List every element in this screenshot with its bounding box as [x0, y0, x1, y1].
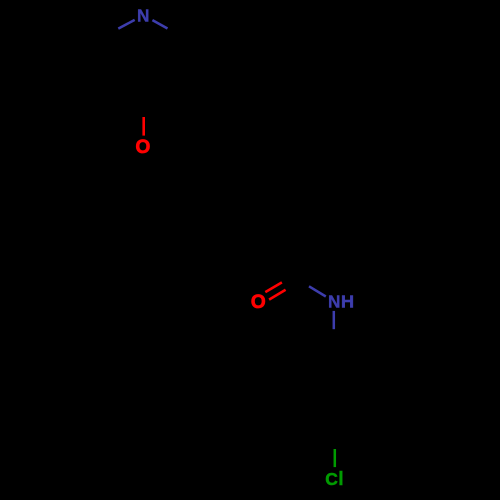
svg-text:H: H — [341, 292, 354, 311]
svg-text:l: l — [338, 468, 343, 490]
svg-text:C: C — [325, 469, 338, 489]
bond C=O2 double, upper red half — [265, 282, 282, 292]
svg-text:O: O — [251, 292, 266, 313]
bond N1-C6 half (blue) — [152, 20, 167, 28]
bond N2-C(aryl) half (blue vertical) — [333, 311, 336, 329]
bond C-N2 half (blue diagonal) — [309, 286, 326, 296]
svg-text:N: N — [137, 6, 149, 26]
bond N1-C2 half (blue) — [118, 20, 134, 29]
bond C4-O1 half (red, vertical) — [142, 117, 145, 136]
bond C=O2 double, lower red half — [269, 290, 286, 300]
svg-text:O: O — [136, 137, 151, 158]
svg-text:N: N — [328, 292, 340, 312]
bond C-Cl half (green vertical) — [334, 449, 337, 467]
